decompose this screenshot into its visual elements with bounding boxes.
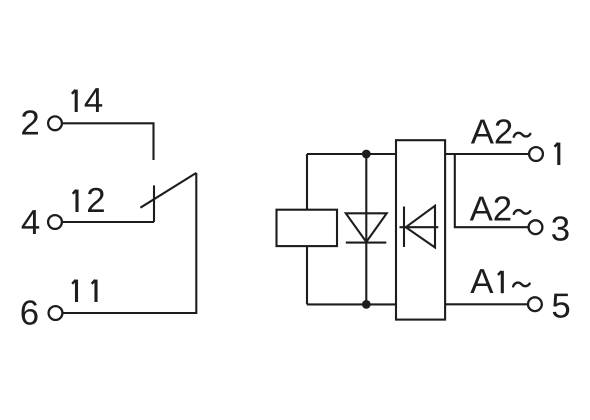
svg-text:A2: A2 bbox=[471, 113, 514, 152]
svg-text:2: 2 bbox=[86, 181, 105, 220]
svg-text:4: 4 bbox=[21, 203, 40, 242]
svg-text:A2: A2 bbox=[470, 190, 513, 229]
svg-text:A: A bbox=[470, 262, 494, 301]
svg-text:3: 3 bbox=[551, 210, 570, 249]
svg-text:4: 4 bbox=[84, 81, 103, 120]
svg-text:2: 2 bbox=[20, 104, 39, 143]
svg-text:6: 6 bbox=[20, 294, 39, 333]
svg-text:5: 5 bbox=[551, 286, 570, 325]
